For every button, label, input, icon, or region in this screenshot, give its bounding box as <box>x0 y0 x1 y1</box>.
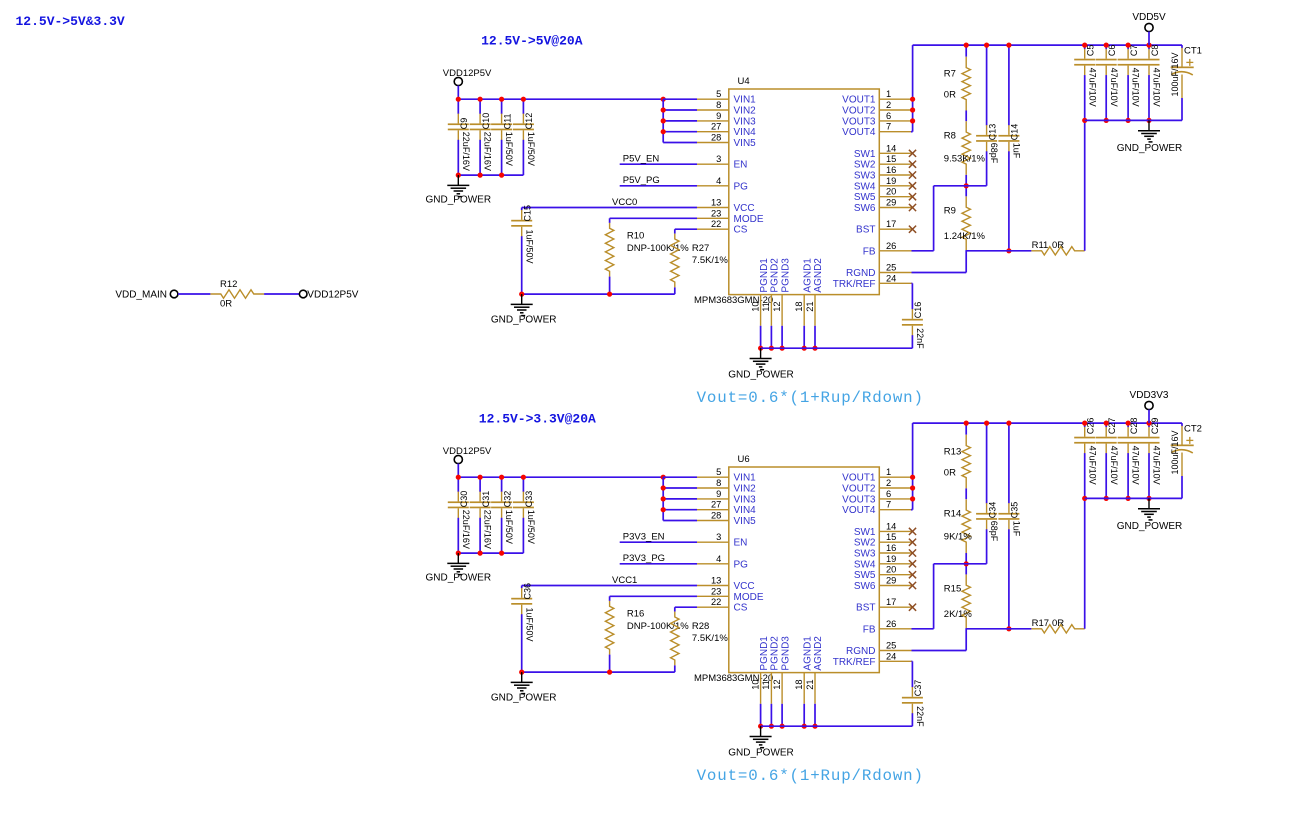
svg-text:22uF/16V: 22uF/16V <box>483 132 493 171</box>
svg-text:VOUT1: VOUT1 <box>842 473 876 484</box>
svg-text:7.5K/1%: 7.5K/1% <box>692 255 728 266</box>
svg-text:MODE: MODE <box>734 592 764 603</box>
svg-text:47uF/10V: 47uF/10V <box>1109 68 1119 107</box>
svg-text:21: 21 <box>805 679 815 689</box>
svg-text:R13: R13 <box>944 447 961 458</box>
svg-text:7.5K/1%: 7.5K/1% <box>692 633 728 644</box>
svg-text:FB: FB <box>863 246 876 257</box>
svg-text:10: 10 <box>750 679 760 689</box>
svg-text:28: 28 <box>711 133 721 143</box>
svg-text:VIN4: VIN4 <box>734 127 757 138</box>
svg-text:47uF/10V: 47uF/10V <box>1152 446 1162 485</box>
svg-text:15: 15 <box>886 532 896 542</box>
svg-text:C31: C31 <box>481 491 491 508</box>
svg-text:22nF: 22nF <box>915 328 925 349</box>
svg-text:1uF/50V: 1uF/50V <box>526 132 536 166</box>
svg-text:CT2: CT2 <box>1184 424 1202 435</box>
svg-text:SW4: SW4 <box>854 559 876 570</box>
svg-text:PG: PG <box>734 181 749 192</box>
svg-text:17: 17 <box>886 597 896 607</box>
svg-text:9: 9 <box>716 489 721 499</box>
svg-text:SW5: SW5 <box>854 570 876 581</box>
svg-text:PGND3: PGND3 <box>780 258 791 293</box>
svg-text:C10: C10 <box>481 113 491 130</box>
svg-text:47uF/10V: 47uF/10V <box>1131 446 1141 485</box>
svg-text:PG: PG <box>734 559 749 570</box>
svg-text:Vout=0.6*(1+Rup/Rdown): Vout=0.6*(1+Rup/Rdown) <box>697 767 924 785</box>
svg-text:47uF/10V: 47uF/10V <box>1131 68 1141 107</box>
svg-text:VIN2: VIN2 <box>734 484 757 495</box>
svg-text:3: 3 <box>716 154 721 164</box>
svg-text:1uF: 1uF <box>1012 143 1022 159</box>
svg-text:1uF: 1uF <box>1012 521 1022 537</box>
svg-text:0R: 0R <box>1052 618 1064 629</box>
svg-text:Vout=0.6*(1+Rup/Rdown): Vout=0.6*(1+Rup/Rdown) <box>697 389 924 407</box>
svg-text:9: 9 <box>716 111 721 121</box>
svg-text:GND_POWER: GND_POWER <box>426 194 492 205</box>
svg-text:23: 23 <box>711 586 721 596</box>
svg-text:R9: R9 <box>944 205 956 216</box>
svg-text:2K/1%: 2K/1% <box>944 609 973 620</box>
svg-text:1uF/50V: 1uF/50V <box>504 132 514 166</box>
svg-text:25: 25 <box>886 641 896 651</box>
svg-text:26: 26 <box>886 619 896 629</box>
svg-text:14: 14 <box>886 143 896 153</box>
svg-text:P5V_EN: P5V_EN <box>623 154 660 165</box>
svg-text:1.24K/1%: 1.24K/1% <box>944 231 986 242</box>
svg-text:VCC: VCC <box>734 203 755 214</box>
svg-text:C37: C37 <box>913 680 923 697</box>
svg-text:VIN4: VIN4 <box>734 505 757 516</box>
svg-text:C30: C30 <box>459 491 469 508</box>
svg-text:RGND: RGND <box>846 646 875 657</box>
svg-text:TRK/REF: TRK/REF <box>833 279 876 290</box>
svg-text:100uF/16V: 100uF/16V <box>1170 430 1180 474</box>
svg-text:C35: C35 <box>1010 502 1020 519</box>
svg-text:VCC: VCC <box>734 581 755 592</box>
svg-text:EN: EN <box>734 538 748 549</box>
svg-text:29: 29 <box>886 198 896 208</box>
svg-text:C15: C15 <box>523 205 533 222</box>
svg-text:27: 27 <box>711 122 721 132</box>
svg-text:VIN1: VIN1 <box>734 95 757 106</box>
svg-text:1uF/50V: 1uF/50V <box>524 608 534 642</box>
svg-text:68pF: 68pF <box>989 143 999 164</box>
svg-text:0R: 0R <box>944 468 956 479</box>
svg-text:22uF/16V: 22uF/16V <box>461 510 471 549</box>
svg-text:PGND1: PGND1 <box>759 636 770 671</box>
svg-text:CS: CS <box>734 225 748 236</box>
svg-text:BST: BST <box>856 225 875 236</box>
svg-text:3: 3 <box>716 532 721 542</box>
svg-text:25: 25 <box>886 263 896 273</box>
svg-text:VCC0: VCC0 <box>612 197 637 208</box>
svg-text:12.5V->5V@20A: 12.5V->5V@20A <box>481 34 583 49</box>
svg-text:R12: R12 <box>220 279 237 290</box>
svg-text:1uF/50V: 1uF/50V <box>504 510 514 544</box>
svg-text:22uF/16V: 22uF/16V <box>483 510 493 549</box>
svg-text:22: 22 <box>711 219 721 229</box>
svg-text:VDD_MAIN: VDD_MAIN <box>115 289 167 300</box>
svg-text:CT1: CT1 <box>1184 46 1202 57</box>
svg-text:6: 6 <box>886 111 891 121</box>
svg-text:RGND: RGND <box>846 268 875 279</box>
svg-text:27: 27 <box>711 500 721 510</box>
svg-text:100uF/16V: 100uF/16V <box>1170 52 1180 96</box>
svg-text:R15: R15 <box>944 583 961 594</box>
svg-text:VIN2: VIN2 <box>734 106 757 117</box>
svg-text:24: 24 <box>886 273 896 283</box>
svg-text:AGND2: AGND2 <box>813 636 824 671</box>
svg-text:5: 5 <box>716 467 721 477</box>
svg-text:C36: C36 <box>523 583 533 600</box>
svg-text:C29: C29 <box>1150 418 1160 435</box>
svg-text:AGND2: AGND2 <box>813 258 824 293</box>
svg-text:R17: R17 <box>1032 618 1049 629</box>
svg-text:PGND3: PGND3 <box>780 636 791 671</box>
svg-text:16: 16 <box>886 543 896 553</box>
svg-text:R7: R7 <box>944 69 956 80</box>
svg-text:VDD12P5V: VDD12P5V <box>443 68 492 79</box>
svg-text:AGND1: AGND1 <box>802 636 813 671</box>
svg-text:28: 28 <box>711 511 721 521</box>
svg-text:12.5V->5V&3.3V: 12.5V->5V&3.3V <box>16 14 125 29</box>
svg-text:VOUT3: VOUT3 <box>842 494 876 505</box>
svg-text:VOUT3: VOUT3 <box>842 116 876 127</box>
svg-text:GND_POWER: GND_POWER <box>491 693 557 704</box>
svg-text:C12: C12 <box>524 113 534 130</box>
svg-text:19: 19 <box>886 554 896 564</box>
svg-text:29: 29 <box>886 576 896 586</box>
svg-text:R28: R28 <box>692 621 709 632</box>
svg-text:22: 22 <box>711 597 721 607</box>
svg-text:VOUT4: VOUT4 <box>842 505 876 516</box>
svg-text:2: 2 <box>886 100 891 110</box>
svg-text:GND_POWER: GND_POWER <box>728 747 794 758</box>
svg-text:SW5: SW5 <box>854 192 876 203</box>
svg-text:DNP-100K/1%: DNP-100K/1% <box>627 243 689 254</box>
svg-text:22nF: 22nF <box>915 706 925 727</box>
svg-text:PGND2: PGND2 <box>770 636 781 671</box>
svg-text:1uF/50V: 1uF/50V <box>526 510 536 544</box>
svg-text:0R: 0R <box>220 298 232 309</box>
svg-text:47uF/10V: 47uF/10V <box>1109 446 1119 485</box>
svg-text:SW3: SW3 <box>854 549 876 560</box>
svg-text:SW1: SW1 <box>854 149 876 160</box>
svg-text:22uF/16V: 22uF/16V <box>461 132 471 171</box>
svg-text:18: 18 <box>794 301 804 311</box>
svg-text:VDD12P5V: VDD12P5V <box>307 289 358 300</box>
svg-text:11: 11 <box>761 302 771 312</box>
svg-text:13: 13 <box>711 576 721 586</box>
svg-text:VOUT2: VOUT2 <box>842 484 876 495</box>
svg-text:8: 8 <box>716 478 721 488</box>
svg-text:C13: C13 <box>987 124 997 141</box>
svg-text:VOUT4: VOUT4 <box>842 127 876 138</box>
svg-text:R11: R11 <box>1032 240 1049 251</box>
svg-text:P3V3_EN: P3V3_EN <box>623 532 665 543</box>
svg-text:SW2: SW2 <box>854 538 876 549</box>
svg-text:7: 7 <box>886 500 891 510</box>
svg-text:R10: R10 <box>627 231 644 242</box>
svg-text:MODE: MODE <box>734 214 764 225</box>
svg-text:47uF/10V: 47uF/10V <box>1087 446 1097 485</box>
svg-text:C27: C27 <box>1107 418 1117 435</box>
svg-text:16: 16 <box>886 165 896 175</box>
svg-text:1uF/50V: 1uF/50V <box>524 230 534 264</box>
svg-text:1: 1 <box>886 467 891 477</box>
svg-text:GND_POWER: GND_POWER <box>1117 521 1183 532</box>
svg-text:SW4: SW4 <box>854 181 876 192</box>
svg-text:EN: EN <box>734 160 748 171</box>
svg-text:DNP-100K/1%: DNP-100K/1% <box>627 621 689 632</box>
svg-text:PGND1: PGND1 <box>759 258 770 293</box>
svg-text:14: 14 <box>886 521 896 531</box>
svg-text:C11: C11 <box>502 113 512 129</box>
svg-text:P5V_PG: P5V_PG <box>623 175 660 186</box>
svg-text:15: 15 <box>886 154 896 164</box>
svg-text:VIN5: VIN5 <box>734 516 757 527</box>
svg-text:4: 4 <box>716 176 721 186</box>
svg-text:47uF/10V: 47uF/10V <box>1087 68 1097 107</box>
svg-text:8: 8 <box>716 100 721 110</box>
svg-text:9K/1%: 9K/1% <box>944 531 973 542</box>
svg-text:VCC1: VCC1 <box>612 575 637 586</box>
svg-text:SW6: SW6 <box>854 581 876 592</box>
svg-text:TRK/REF: TRK/REF <box>833 657 876 668</box>
svg-text:C34: C34 <box>987 502 997 519</box>
svg-text:21: 21 <box>805 301 815 311</box>
svg-text:24: 24 <box>886 651 896 661</box>
svg-text:R27: R27 <box>692 243 709 254</box>
svg-text:GND_POWER: GND_POWER <box>426 572 492 583</box>
svg-text:C16: C16 <box>913 302 923 319</box>
svg-text:AGND1: AGND1 <box>802 258 813 293</box>
svg-text:PGND2: PGND2 <box>770 258 781 293</box>
svg-text:SW2: SW2 <box>854 160 876 171</box>
svg-text:C32: C32 <box>502 491 512 508</box>
svg-text:0R: 0R <box>1052 240 1064 251</box>
svg-text:20: 20 <box>886 187 896 197</box>
svg-text:C33: C33 <box>524 491 534 508</box>
svg-text:19: 19 <box>886 176 896 186</box>
svg-text:12.5V->3.3V@20A: 12.5V->3.3V@20A <box>479 412 596 427</box>
svg-text:VDD3V3: VDD3V3 <box>1130 390 1169 401</box>
svg-text:CS: CS <box>734 603 748 614</box>
svg-text:R14: R14 <box>944 508 961 519</box>
svg-text:VDD12P5V: VDD12P5V <box>443 446 492 457</box>
svg-text:U6: U6 <box>738 454 750 465</box>
svg-text:SW3: SW3 <box>854 171 876 182</box>
svg-text:20: 20 <box>886 565 896 575</box>
svg-text:23: 23 <box>711 208 721 218</box>
svg-text:VIN3: VIN3 <box>734 494 757 505</box>
svg-text:VIN1: VIN1 <box>734 473 757 484</box>
svg-text:17: 17 <box>886 219 896 229</box>
svg-text:10: 10 <box>750 301 760 311</box>
svg-text:R16: R16 <box>627 609 644 620</box>
svg-text:7: 7 <box>886 122 891 132</box>
svg-text:SW1: SW1 <box>854 527 876 538</box>
svg-text:26: 26 <box>886 241 896 251</box>
svg-text:9.53K/1%: 9.53K/1% <box>944 153 986 164</box>
svg-text:0R: 0R <box>944 90 956 101</box>
svg-text:13: 13 <box>711 198 721 208</box>
svg-text:1: 1 <box>886 89 891 99</box>
svg-text:P3V3_PG: P3V3_PG <box>623 553 665 564</box>
svg-text:5: 5 <box>716 89 721 99</box>
svg-text:GND_POWER: GND_POWER <box>491 315 557 326</box>
svg-text:18: 18 <box>794 679 804 689</box>
svg-text:U4: U4 <box>738 76 750 87</box>
svg-text:4: 4 <box>716 554 721 564</box>
svg-text:VOUT1: VOUT1 <box>842 95 876 106</box>
svg-text:VOUT2: VOUT2 <box>842 106 876 117</box>
svg-text:GND_POWER: GND_POWER <box>728 369 794 380</box>
svg-text:12: 12 <box>772 679 782 689</box>
svg-text:VIN5: VIN5 <box>734 138 757 149</box>
svg-text:VDD5V: VDD5V <box>1132 12 1166 23</box>
svg-text:FB: FB <box>863 624 876 635</box>
svg-text:C28: C28 <box>1129 418 1139 435</box>
svg-text:C9: C9 <box>459 118 469 130</box>
svg-text:47uF/10V: 47uF/10V <box>1152 68 1162 107</box>
svg-text:GND_POWER: GND_POWER <box>1117 143 1183 154</box>
svg-text:C14: C14 <box>1010 124 1020 141</box>
svg-text:2: 2 <box>886 478 891 488</box>
svg-text:68pF: 68pF <box>989 521 999 542</box>
svg-text:12: 12 <box>772 301 782 311</box>
svg-text:VIN3: VIN3 <box>734 116 757 127</box>
svg-text:C26: C26 <box>1086 418 1096 435</box>
svg-text:6: 6 <box>886 489 891 499</box>
svg-text:SW6: SW6 <box>854 203 876 214</box>
svg-text:BST: BST <box>856 603 875 614</box>
svg-text:R8: R8 <box>944 130 956 141</box>
svg-text:11: 11 <box>761 680 771 690</box>
